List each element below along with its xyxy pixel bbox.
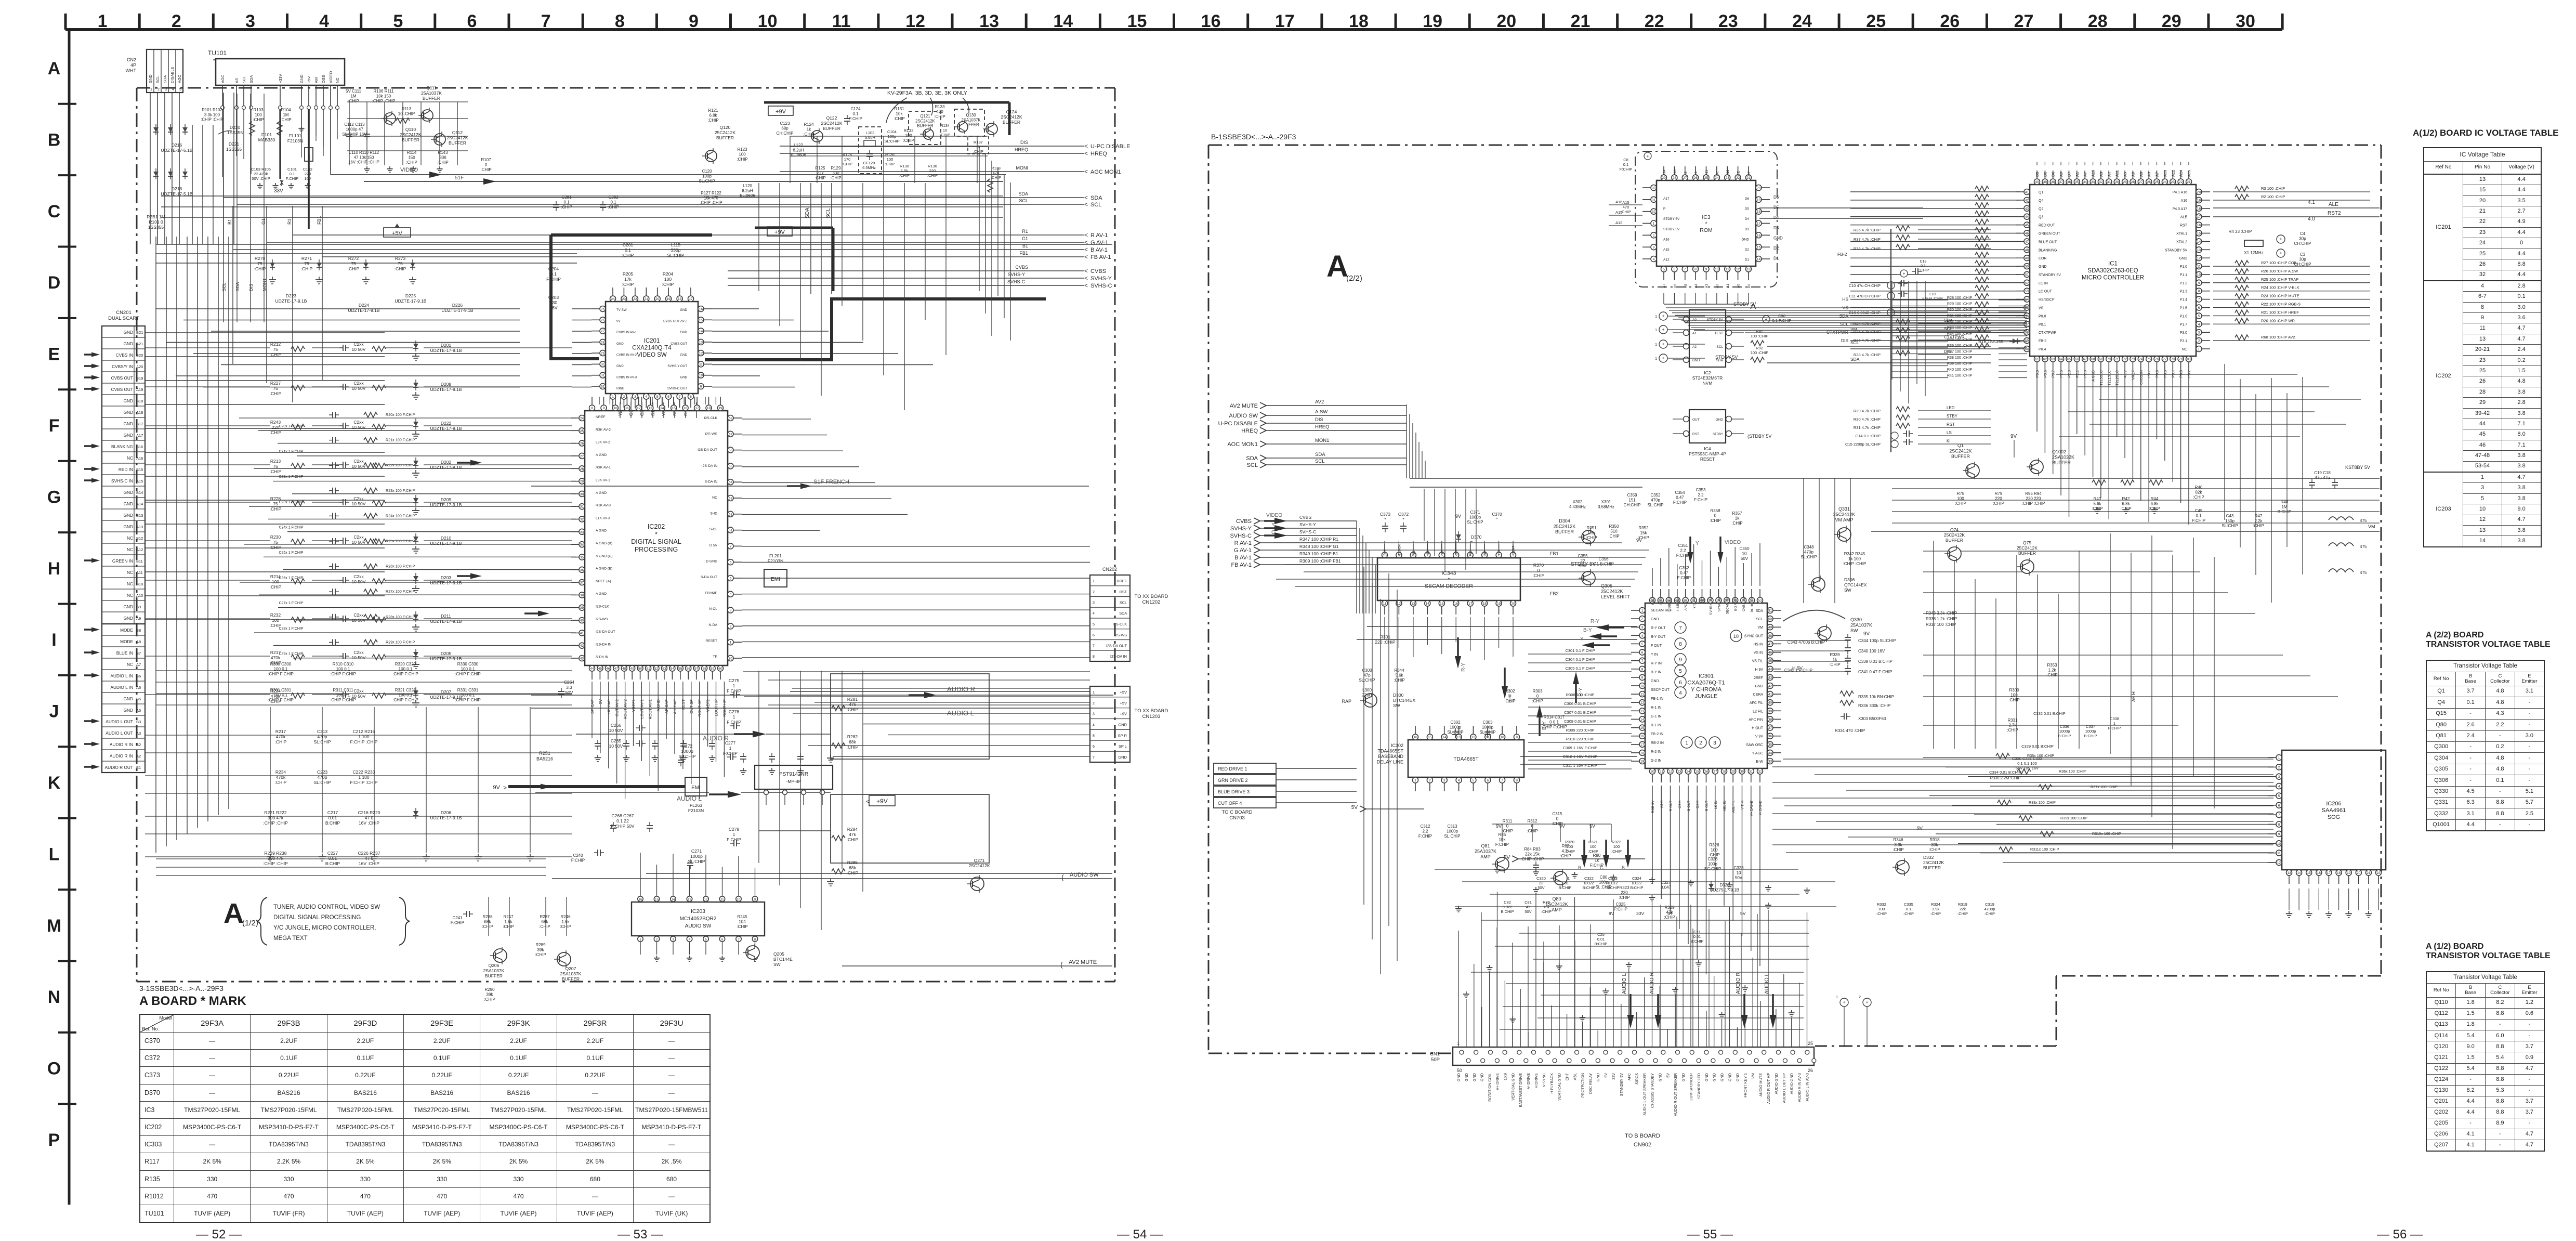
svg-text:GND: GND (1658, 1073, 1662, 1081)
svg-text:A18: A18 (136, 410, 143, 415)
svg-text:C24x 1 F:CHIP: C24x 1 F:CHIP (279, 526, 303, 529)
svg-text:BUFFER: BUFFER (2052, 460, 2071, 465)
svg-text:R234: R234 (275, 769, 286, 775)
svg-text:T2L1SLC: T2L1SLC (2108, 370, 2111, 386)
svg-text::CHIP F:CHIP: :CHIP F:CHIP (392, 672, 418, 676)
svg-text:A0: A0 (2059, 172, 2064, 177)
svg-text:A 5V: A 5V (2124, 370, 2127, 378)
svg-text:NC: NC (127, 455, 133, 461)
svg-text:37: 37 (580, 581, 584, 585)
svg-text:17: 17 (2327, 871, 2331, 875)
svg-text:R121: R121 (708, 108, 718, 113)
svg-text:57: 57 (694, 667, 699, 671)
svg-text:Q122: Q122 (826, 115, 837, 121)
svg-text:21: 21 (2187, 180, 2191, 184)
svg-text:AUDIO MUTE: AUDIO MUTE (1758, 1073, 1763, 1096)
svg-text:Y AGC: Y AGC (1752, 752, 1763, 755)
svg-text:P0.6: P0.6 (2044, 370, 2047, 378)
svg-text:3: 3 (1443, 779, 1445, 782)
svg-text:C268 C267: C268 C267 (611, 813, 634, 818)
svg-text:HS: HS (1842, 297, 1848, 302)
svg-text:11: 11 (2277, 852, 2281, 855)
svg-text:0: 0 (1506, 824, 1509, 829)
svg-text:22 470k: 22 470k (254, 172, 268, 176)
svg-text:<: < (1084, 253, 1088, 260)
svg-text:26: 26 (580, 442, 584, 446)
svg-text:R227: R227 (270, 381, 281, 386)
svg-text:R246: R246 (560, 915, 571, 919)
svg-text:9V: 9V (616, 320, 621, 323)
svg-text:Q80: Q80 (1552, 896, 1561, 902)
svg-text:SL:CHIP: SL:CHIP (884, 139, 899, 143)
svg-text:C305 0.1 F:CHIP: C305 0.1 F:CHIP (1565, 666, 1595, 671)
thick 9V trace left of IC201 (551, 235, 599, 359)
svg-text:AUDIO L OUT: AUDIO L OUT (106, 730, 133, 736)
svg-text::CHIP: :CHIP (1533, 573, 1545, 578)
svg-text:R272: R272 (348, 256, 359, 261)
svg-text:0 0.1: 0 0.1 (1549, 720, 1559, 725)
svg-text::CHIP :CHIP: :CHIP :CHIP (1843, 561, 1867, 566)
svg-text:FB AV-1: FB AV-1 (1231, 562, 1252, 568)
svg-text::CHIP: :CHIP (1541, 909, 1552, 914)
svg-text:VM: VM (1751, 1073, 1755, 1079)
svg-text:R324: R324 (1931, 902, 1940, 907)
svg-text:A: A (1326, 250, 1348, 283)
circled node numbers at jungle left (1675, 622, 1686, 633)
svg-text:C: C (48, 202, 61, 221)
svg-text:A15: A15 (1622, 200, 1629, 205)
svg-text:R308 100 :CHIP: R308 100 :CHIP (1566, 693, 1595, 697)
svg-text:+9V: +9V (776, 109, 786, 115)
svg-text:GND: GND (124, 696, 133, 701)
svg-text:6.8k: 6.8k (709, 113, 717, 118)
svg-text:R350: R350 (1609, 524, 1619, 529)
svg-text:48: 48 (2025, 249, 2029, 252)
svg-text:8: 8 (2198, 290, 2200, 293)
svg-text:BUFFER: BUFFER (485, 973, 503, 978)
svg-text:GND: GND (124, 410, 133, 415)
svg-text:C23x 1 F:CHIP: C23x 1 F:CHIP (279, 501, 303, 504)
svg-text:CVBS IN: CVBS IN (2140, 370, 2144, 385)
svg-text:CH:CHIP: CH:CHIP (1624, 503, 1641, 507)
svg-text:QTC144EX: QTC144EX (1844, 582, 1867, 587)
svg-text:1: 1 (1641, 609, 1644, 613)
svg-text:2.2: 2.2 (1680, 548, 1686, 553)
svg-text:VIDEO: VIDEO (1266, 513, 1282, 518)
svg-text:33V: 33V (1611, 1073, 1616, 1080)
bold arrow AV bus 2 (470, 460, 482, 466)
svg-text:25A1037K: 25A1037K (1850, 623, 1872, 628)
svg-text:AUDIO R IN: AUDIO R IN (110, 742, 133, 747)
svg-text:TO C BOARD: TO C BOARD (1222, 809, 1253, 815)
svg-text:SAA4961: SAA4961 (2322, 807, 2346, 814)
svg-text:47: 47 (1768, 643, 1772, 646)
svg-text:HREQ: HREQ (1090, 151, 1107, 157)
svg-text:C10 47u CH:CHIP: C10 47u CH:CHIP (1849, 283, 1881, 288)
svg-text:25A1037K: 25A1037K (1475, 849, 1496, 854)
svg-text:R101 R102: R101 R102 (202, 108, 222, 112)
svg-text:GND: GND (148, 74, 153, 83)
svg-text:7: 7 (730, 545, 732, 548)
svg-text:R319: R319 (1958, 902, 1967, 907)
svg-text:12: 12 (704, 898, 708, 902)
svg-text:1: 1 (1836, 996, 1838, 999)
svg-text:D221: D221 (229, 141, 240, 147)
svg-text:L1K AV-3: L1K AV-3 (596, 516, 610, 520)
svg-text:VIDEO: VIDEO (1725, 540, 1741, 545)
svg-text:0.1: 0.1 (550, 271, 557, 277)
svg-text:P1.4: P1.4 (2180, 298, 2188, 302)
svg-text:R130: R130 (900, 164, 909, 168)
svg-text:UDZTE-17-9.1B: UDZTE-17-9.1B (430, 619, 462, 624)
svg-text:15: 15 (1440, 602, 1444, 606)
svg-text:R321: R321 (1588, 840, 1598, 844)
svg-text:C26x 1 F:CHIP: C26x 1 F:CHIP (279, 577, 303, 580)
svg-text:33: 33 (1768, 760, 1772, 764)
svg-text:D201: D201 (441, 343, 452, 348)
svg-text:26: 26 (1693, 176, 1698, 180)
svg-text:R87: R87 (1562, 844, 1570, 848)
svg-text:18: 18 (707, 407, 711, 410)
svg-text:SSCP OUT: SSCP OUT (1651, 688, 1670, 692)
svg-text::CHIP: :CHIP (737, 924, 747, 929)
svg-text:23: 23 (1677, 770, 1681, 774)
svg-text:AUDIO SW: AUDIO SW (1229, 413, 1258, 419)
svg-text:D1: D1 (1745, 258, 1750, 262)
svg-text:10 50V: 10 50V (352, 501, 366, 506)
svg-text:I2S-CLK: I2S-CLK (596, 605, 609, 609)
svg-text:R20 100 :CHIP WR: R20 100 :CHIP WR (2261, 318, 2295, 323)
svg-text:I2S-DA OUT: I2S-DA OUT (1106, 644, 1127, 648)
svg-text:C28x 1 F:CHIP: C28x 1 F:CHIP (279, 627, 303, 631)
right mid mesh horizontal wires (1923, 551, 2173, 552)
svg-text:2: 2 (2278, 766, 2280, 769)
bold arrow AUDIO L down (1627, 1015, 1634, 1028)
svg-text:19: 19 (2197, 199, 2201, 202)
svg-text:VIDEO: VIDEO (400, 167, 418, 173)
svg-text:R20x 100 F:CHIP: R20x 100 F:CHIP (386, 412, 415, 417)
svg-text:VERTICAL GND: VERTICAL GND (1557, 1073, 1562, 1101)
svg-text:66: 66 (729, 449, 733, 452)
svg-text:47: 47 (2025, 240, 2029, 244)
svg-text:12: 12 (905, 11, 925, 31)
svg-text:FB1: FB1 (1550, 551, 1559, 556)
svg-text:Q74: Q74 (1950, 527, 1959, 532)
svg-text:57: 57 (2025, 323, 2029, 326)
wires IF right section (790, 136, 988, 137)
svg-text:25: 25 (1866, 11, 1886, 31)
svg-text:AMP: AMP (1552, 907, 1562, 912)
svg-text:C204: C204 (548, 266, 559, 271)
svg-text:SCL: SCL (1247, 462, 1258, 468)
svg-text:A14: A14 (2179, 170, 2184, 177)
svg-text:G AV-1: G AV-1 (1090, 240, 1108, 246)
svg-text:0.1 0.1 100: 0.1 0.1 100 (2017, 761, 2037, 766)
svg-text:RGB 9V: RGB 9V (1651, 800, 1655, 813)
svg-text:R312: R312 (1527, 819, 1537, 824)
svg-text:AFC FIL: AFC FIL (1750, 701, 1763, 705)
svg-text:I2S-WS: I2S-WS (705, 433, 718, 436)
svg-text:C315: C315 (1552, 812, 1562, 816)
svg-text:25: 25 (1696, 770, 1700, 774)
svg-text:C313: C313 (1447, 824, 1457, 829)
svg-text:GND: GND (1118, 755, 1127, 760)
svg-text:A GND (E): A GND (E) (596, 567, 612, 571)
svg-text:UDZTE-17-9.1B: UDZTE-17-9.1B (430, 580, 462, 585)
svg-text:C120: C120 (702, 169, 712, 174)
svg-text:65: 65 (729, 465, 733, 468)
svg-text:C337: C337 (2086, 724, 2095, 729)
svg-text::CHIP: :CHIP (1708, 853, 1719, 857)
vertical wires tuner section (222, 109, 223, 129)
svg-text:5: 5 (393, 11, 403, 31)
svg-text::CHIP: :CHIP (348, 266, 360, 271)
svg-text:N-CL: N-CL (709, 607, 717, 611)
svg-text:Q75: Q75 (2023, 540, 2031, 545)
signal output FB AV-1 (322, 256, 1084, 257)
svg-text:R103: R103 (253, 108, 264, 112)
svg-text:GND: GND (124, 330, 133, 335)
svg-text:<: < (1084, 275, 1088, 282)
svg-text:A15: A15 (2187, 170, 2191, 177)
svg-text:75: 75 (2147, 358, 2151, 361)
svg-text:COR: COR (2039, 257, 2047, 260)
svg-text:17k: 17k (624, 277, 632, 282)
svg-text:SDA302C263-0EQ: SDA302C263-0EQ (2087, 268, 2138, 274)
svg-text:RAP: RAP (1342, 699, 1351, 704)
svg-text:10: 10 (1715, 268, 1719, 271)
svg-text:C11 47u CH:CHIP: C11 47u CH:CHIP (1849, 294, 1881, 298)
svg-text:30: 30 (580, 492, 584, 496)
svg-text:F:CHIP: F:CHIP (451, 921, 464, 925)
svg-text:40: 40 (2035, 180, 2039, 184)
svg-text:0.1: 0.1 (563, 200, 570, 205)
right mid long horizontal nets to IC206 (1783, 759, 2273, 760)
svg-text:NVM: NVM (1703, 381, 1713, 386)
connector CN1 50P to B board (1453, 1047, 1814, 1065)
svg-text:C320: C320 (1536, 876, 1546, 881)
svg-text:28: 28 (1722, 770, 1726, 774)
svg-text:R287: R287 (540, 915, 550, 919)
svg-text:R247: R247 (503, 915, 514, 919)
svg-text:R39 100 :CHIP: R39 100 :CHIP (1947, 361, 1973, 366)
svg-text:R320 C320: R320 C320 (395, 662, 416, 667)
svg-text:LED: LED (1947, 406, 1955, 410)
svg-text:9: 9 (1641, 676, 1644, 680)
nets below micro to right area (2056, 374, 2297, 375)
svg-text:20: 20 (655, 297, 660, 301)
svg-text:I2S-DA OUT: I2S-DA OUT (698, 448, 717, 452)
svg-text:25C2412K: 25C2412K (1833, 512, 1856, 517)
svg-text:I2S-CLK: I2S-CLK (1113, 622, 1127, 626)
option box Q121 buffer (909, 111, 941, 145)
svg-text:2.2: 2.2 (1698, 493, 1704, 498)
svg-text:30p: 30p (2299, 237, 2306, 241)
svg-text:DIGITAL SIGNAL: DIGITAL SIGNAL (631, 538, 681, 545)
svg-text:A GND: A GND (596, 529, 607, 533)
svg-text:E-W: E-W (1756, 760, 1763, 764)
svg-text:R358: R358 (1710, 508, 1720, 513)
svg-text:C278: C278 (729, 827, 740, 832)
signal output SDA (224, 197, 1084, 198)
bold arrow VIDEO into jungle top (1718, 552, 1724, 564)
svg-text:76: 76 (2155, 358, 2159, 361)
svg-text:FB2: FB2 (1550, 591, 1559, 596)
svg-text:220: 220 (929, 168, 936, 173)
svg-text:R332: R332 (1877, 902, 1886, 907)
svg-text:R370: R370 (1533, 563, 1544, 568)
svg-text:R300: R300 (2009, 688, 2019, 693)
svg-text:8: 8 (1093, 655, 1095, 659)
svg-text:50: 50 (1457, 1068, 1462, 1073)
svg-text:43: 43 (1768, 676, 1772, 680)
svg-text:R351: R351 (1586, 526, 1597, 530)
svg-text:64: 64 (2059, 358, 2063, 361)
svg-text:R303: R303 (1532, 689, 1543, 694)
svg-text:100: 100 (272, 579, 279, 584)
svg-text:4P: 4P (130, 63, 136, 68)
svg-text:SCL: SCL (1756, 618, 1763, 621)
wires audio networks (145, 735, 572, 736)
svg-text:GND: GND (124, 490, 133, 495)
jungle bottom pin wires (1652, 786, 1653, 884)
svg-text:F: F (49, 416, 60, 436)
wire fan from CN201 to switch circuits (145, 332, 385, 333)
svg-text:1: 1 (2198, 348, 2200, 351)
svg-text:I2S-DA IN: I2S-DA IN (1110, 654, 1127, 659)
svg-text:R107: R107 (481, 158, 491, 162)
svg-text:R29 4.7k :CHIP: R29 4.7k :CHIP (1854, 409, 1881, 413)
svg-text:APC FIL: APC FIL (1685, 598, 1688, 611)
svg-text:63: 63 (729, 497, 733, 501)
svg-text:IC301: IC301 (1699, 673, 1714, 680)
svg-text:SCL: SCL (242, 75, 246, 83)
svg-text:R42: R42 (2122, 497, 2130, 501)
svg-text:16: 16 (1454, 602, 1458, 606)
svg-text:C4: C4 (2300, 231, 2306, 236)
svg-text:13: 13 (688, 898, 691, 902)
svg-text:AGC: AGC (220, 74, 225, 83)
svg-text:1: 1 (1655, 357, 1657, 361)
svg-text:21: 21 (1746, 176, 1751, 180)
svg-text:C301 0.1 F:CHIP: C301 0.1 F:CHIP (1565, 648, 1595, 653)
svg-text:C212 R216: C212 R216 (352, 729, 375, 734)
svg-text:P0.5: P0.5 (2036, 370, 2040, 378)
svg-text:Y TIM: Y TIM (1741, 801, 1745, 809)
svg-text:56: 56 (687, 667, 691, 671)
svg-text:C308 0.01 B:CHIP: C308 0.01 B:CHIP (1564, 719, 1596, 724)
svg-text:10 50V: 10 50V (352, 655, 366, 660)
svg-text:61: 61 (729, 529, 733, 532)
svg-text:N: N (48, 987, 61, 1007)
svg-text:A9: A9 (1694, 172, 1698, 176)
svg-text:D5: D5 (2035, 172, 2040, 177)
wires from TU101 pins (222, 110, 223, 177)
svg-text:SP L: SP L (1119, 744, 1127, 749)
svg-text:Y: Y (1271, 522, 1275, 528)
svg-text:C20x 1 F:CHIP: C20x 1 F:CHIP (279, 425, 303, 428)
svg-text:— 53 —: — 53 — (617, 1227, 663, 1241)
svg-text:22: 22 (2376, 871, 2381, 875)
svg-text:50V: 50V (1579, 564, 1587, 568)
signal output G AV-1 (267, 242, 1084, 243)
svg-text:B:CHIP: B:CHIP (1501, 909, 1514, 914)
svg-text:SDA: SDA (805, 207, 810, 218)
svg-text:16: 16 (1201, 11, 1221, 31)
signal output B AV-1 (233, 249, 1084, 250)
svg-text:5V: 5V (1665, 1073, 1670, 1078)
svg-text:40: 40 (1768, 701, 1772, 705)
svg-text:C282: C282 (608, 195, 619, 200)
svg-text:C8: C8 (1623, 158, 1628, 162)
svg-text:G-1 IN: G-1 IN (1651, 715, 1662, 719)
svg-text:48: 48 (1768, 634, 1772, 638)
svg-text::CHIP: :CHIP (847, 870, 859, 876)
svg-text:F:CHIP: F:CHIP (1418, 834, 1432, 839)
svg-text:FRAME: FRAME (705, 592, 717, 595)
svg-text:B:CHIP: B:CHIP (2058, 734, 2071, 738)
svg-text:18: 18 (2197, 207, 2201, 211)
svg-text:AGC MON1: AGC MON1 (1090, 169, 1121, 175)
svg-text:B12: B12 (136, 536, 143, 541)
svg-text:FB-1 IN: FB-1 IN (1651, 697, 1663, 701)
svg-text:20: 20 (1757, 187, 1761, 190)
svg-text:Q124: Q124 (1006, 109, 1017, 114)
svg-text:C201: C201 (623, 242, 634, 247)
digital signal processor IC202 MSP (585, 411, 728, 665)
svg-text:12: 12 (2277, 861, 2281, 865)
svg-text:D0: D0 (2043, 172, 2047, 177)
svg-text:P3.4: P3.4 (2172, 370, 2175, 378)
svg-text:30: 30 (1740, 770, 1744, 774)
svg-text:R-Y OUT: R-Y OUT (1651, 626, 1666, 630)
svg-text:2SC2412K: 2SC2412K (821, 121, 842, 126)
svg-text:TEST: TEST (1714, 332, 1723, 335)
svg-text:R284: R284 (847, 827, 858, 832)
svg-text:C336: C336 (2060, 724, 2069, 729)
wires into IC206 left pins (1923, 757, 2273, 758)
svg-text:GND: GND (1692, 359, 1700, 362)
tuner TU101 (216, 59, 345, 85)
svg-text:R310x 100 :CHIP: R310x 100 :CHIP (2092, 831, 2121, 836)
buffer transistors right of micro (1948, 547, 1961, 560)
svg-text:0: 0 (1556, 817, 1559, 821)
svg-text:220: 220 (305, 172, 311, 176)
svg-text:F:CHIP: F:CHIP (286, 176, 299, 181)
svg-text:22k 15k: 22k 15k (1525, 852, 1540, 857)
wires above IC203 (640, 853, 641, 884)
svg-text::CHIP: :CHIP (814, 176, 825, 180)
svg-text:7: 7 (1641, 659, 1644, 663)
svg-text:A GND: A GND (2092, 370, 2096, 382)
svg-text:8: 8 (690, 395, 692, 399)
svg-text:+: + (1662, 327, 1664, 332)
svg-text:Q120: Q120 (720, 125, 731, 130)
svg-text:38: 38 (2051, 180, 2055, 184)
svg-text::CHIP: :CHIP (893, 116, 904, 121)
svg-text:NC: NC (1441, 551, 1444, 555)
svg-text:3-1SSBE3D<...>-A..-29F3: 3-1SSBE3D<...>-A..-29F3 (139, 984, 224, 992)
svg-text:SVHS-Y: SVHS-Y (1299, 522, 1316, 527)
svg-text:<: < (1084, 194, 1088, 201)
signal output R AV-1 (293, 234, 1084, 236)
svg-text:D203: D203 (441, 575, 452, 580)
svg-text:R124: R124 (804, 122, 814, 127)
svg-text:*: * (1471, 540, 1473, 545)
svg-text:D206: D206 (441, 810, 452, 815)
svg-text:P1.5: P1.5 (2180, 307, 2188, 310)
svg-text:C307 0.01 B:CHIP: C307 0.01 B:CHIP (1564, 710, 1596, 715)
